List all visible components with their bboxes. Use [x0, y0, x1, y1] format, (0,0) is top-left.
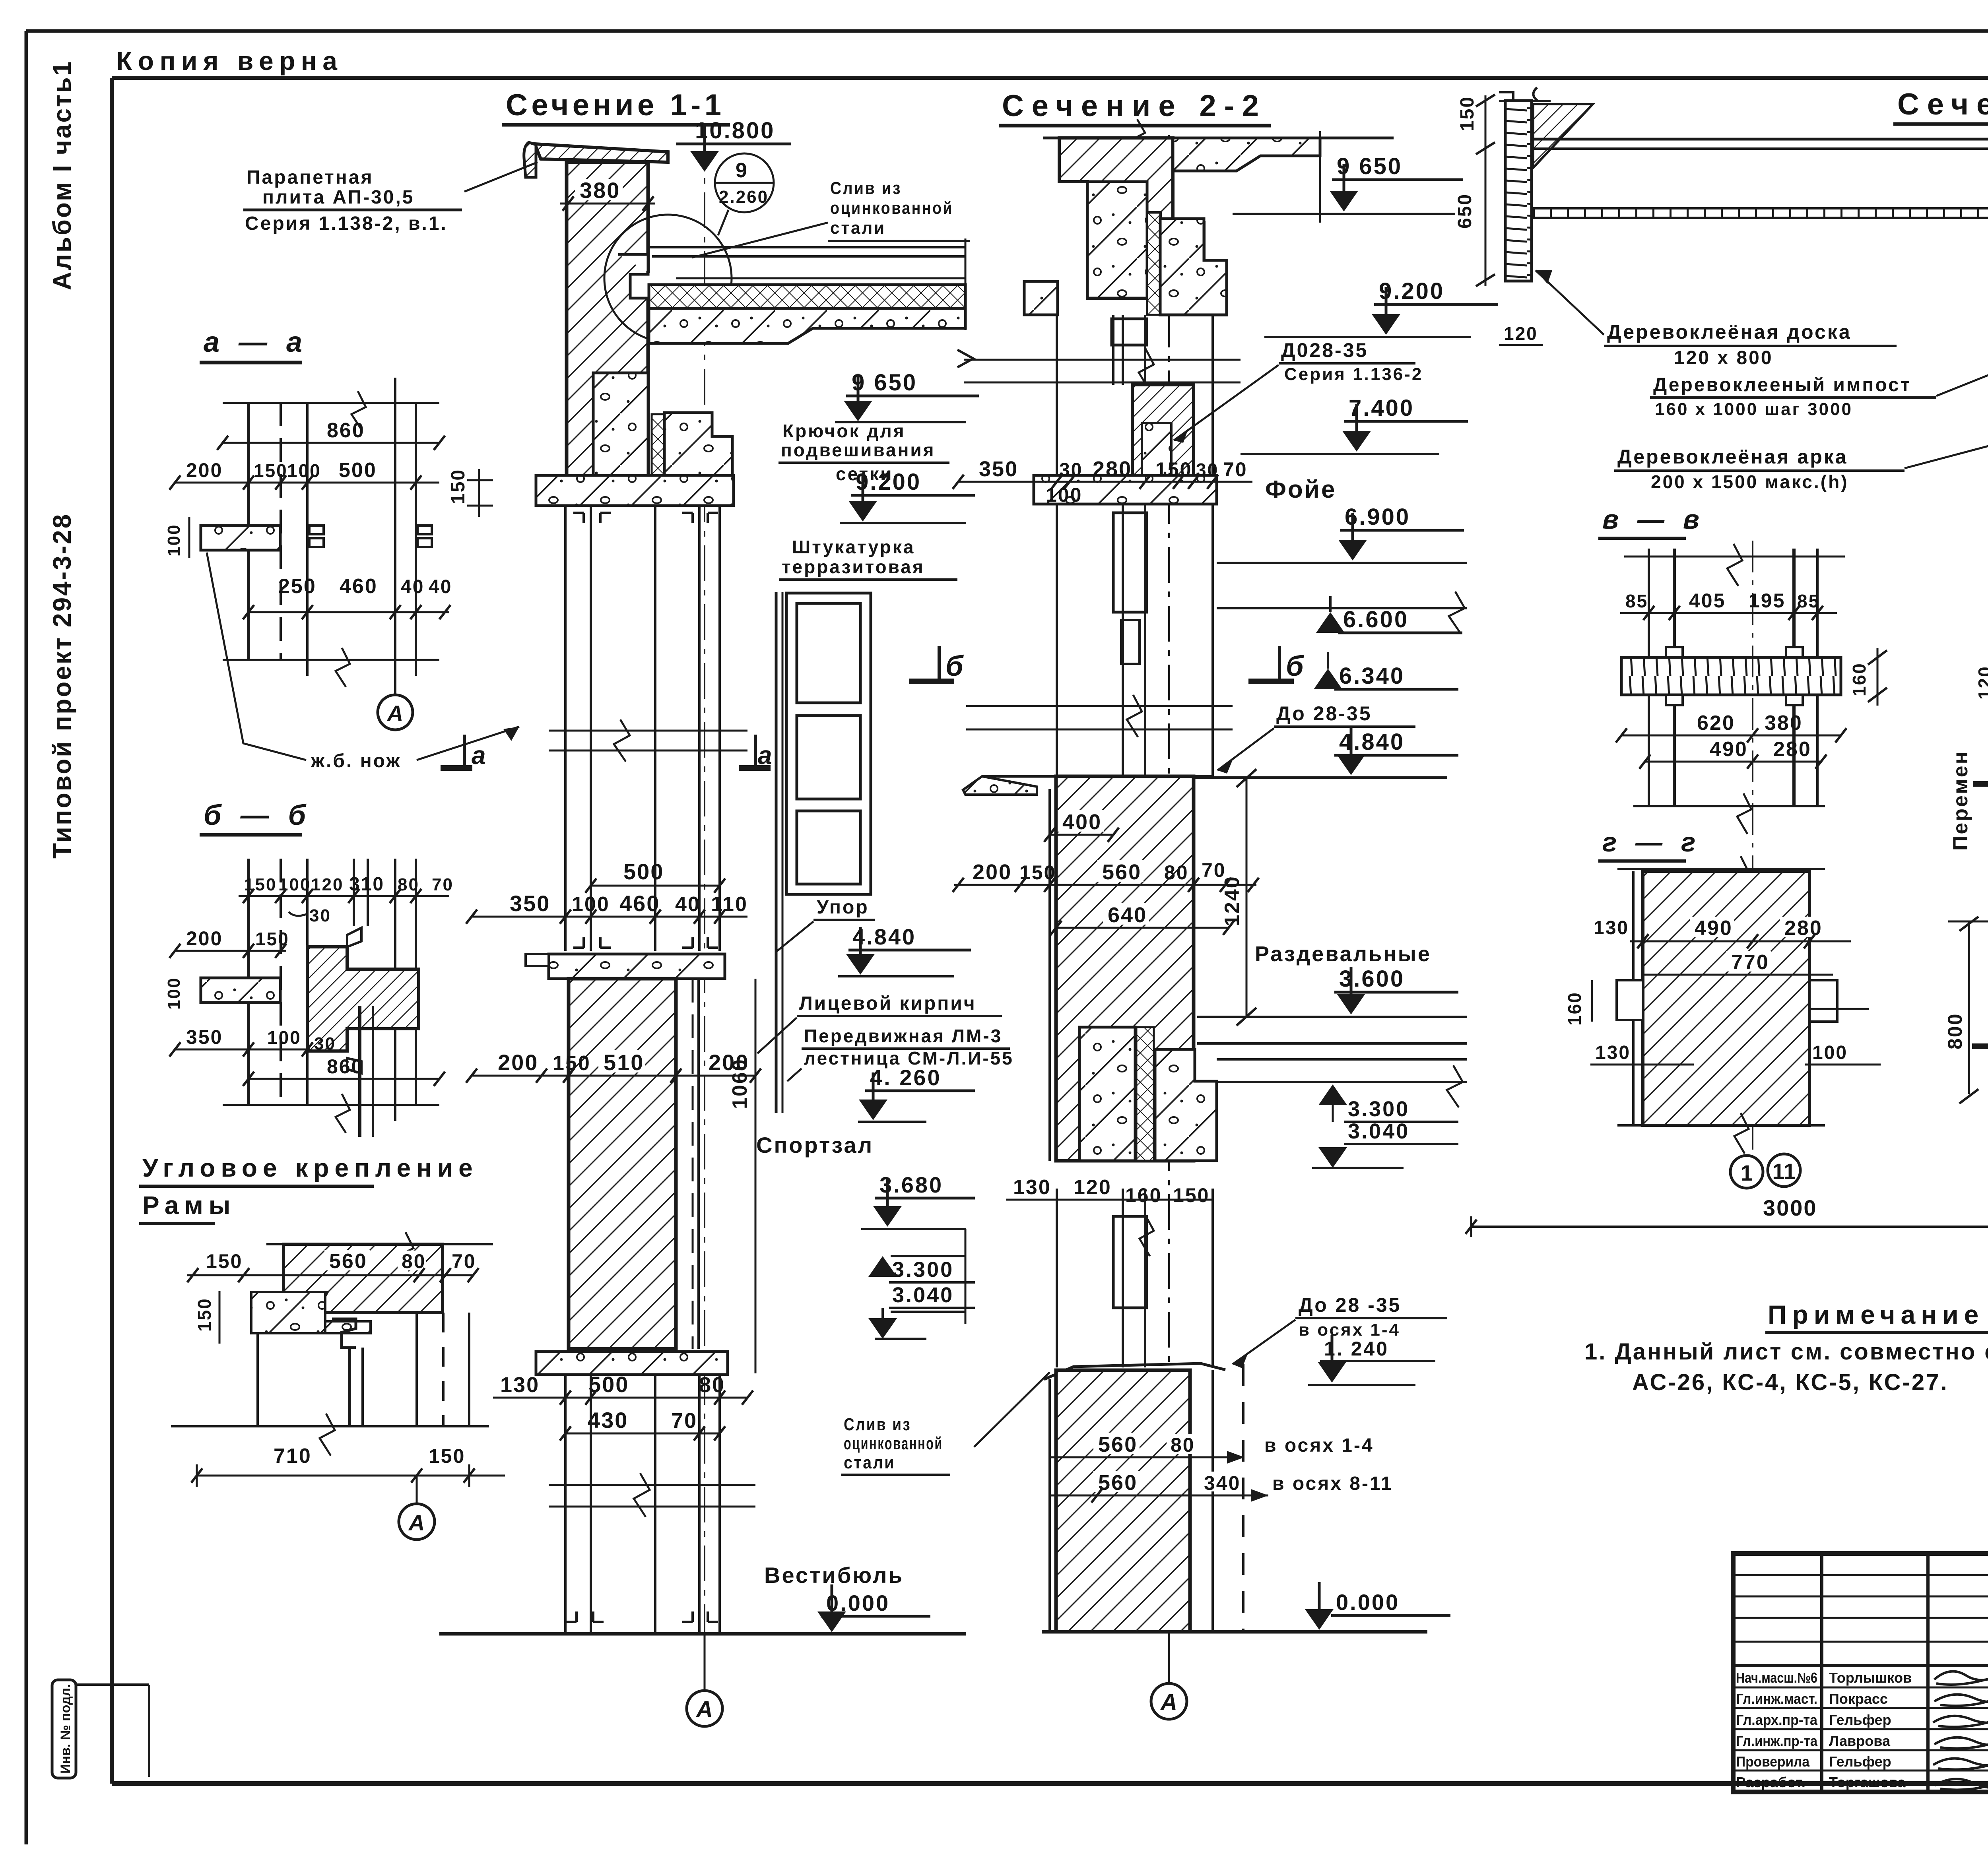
svg-text:70: 70 — [1223, 458, 1248, 481]
svg-text:До 28-35: До 28-35 — [1276, 702, 1372, 725]
svg-text:Типовой проект 294-3-28: Типовой проект 294-3-28 — [48, 513, 76, 859]
svg-text:б — б: б — б — [204, 799, 311, 831]
svg-text:100: 100 — [164, 977, 184, 1010]
sill band — [1034, 475, 1217, 504]
svg-text:85: 85 — [1797, 591, 1820, 611]
svg-text:11: 11 — [1772, 1159, 1796, 1184]
svg-text:80: 80 — [1171, 1434, 1195, 1456]
leader to Парапетная плита label — [464, 162, 538, 192]
left margin stamp box Инв № подл — [52, 1680, 149, 1778]
b-b cut marks — [909, 646, 1294, 681]
svg-text:100: 100 — [572, 893, 610, 916]
roof slab right concrete — [1173, 138, 1320, 171]
bottom dim line with break — [223, 659, 439, 661]
top dim line with break — [223, 402, 439, 404]
svg-text:40: 40 — [675, 893, 701, 916]
svg-text:150: 150 — [429, 1445, 465, 1467]
svg-text:1: 1 — [1740, 1160, 1753, 1185]
svg-text:130: 130 — [500, 1373, 540, 1397]
svg-text:А: А — [408, 1510, 425, 1535]
right concrete block — [1160, 219, 1227, 315]
svg-text:3000: 3000 — [1763, 1195, 1817, 1220]
bottom brackets — [566, 1611, 604, 1622]
b cut marks — [1973, 757, 1988, 784]
svg-text:3.680: 3.680 — [879, 1172, 943, 1197]
roof line — [1043, 137, 1394, 140]
break 1 — [964, 348, 1241, 391]
mid wall — [569, 979, 676, 1349]
svg-text:Копия верна: Копия верна — [116, 46, 339, 76]
window head profile in wall notch — [618, 254, 712, 309]
svg-text:150: 150 — [448, 469, 469, 504]
svg-text:Серия 1.136-2: Серия 1.136-2 — [1284, 365, 1423, 384]
column lines — [1820, 1553, 1823, 1792]
svg-text:200 х 1500 макс.(h): 200 х 1500 макс.(h) — [1651, 471, 1849, 492]
svg-text:400: 400 — [1062, 810, 1102, 834]
svg-text:160: 160 — [1849, 662, 1870, 696]
insulation column — [652, 414, 664, 475]
svg-text:Торлышков: Торлышков — [1829, 1670, 1912, 1686]
svg-text:85: 85 — [1625, 591, 1648, 611]
concrete inset — [1087, 182, 1147, 298]
svg-text:9: 9 — [736, 159, 748, 182]
svg-text:9 650: 9 650 — [1337, 153, 1402, 179]
ground line — [1042, 1630, 1427, 1634]
verticals — [248, 859, 416, 1121]
svg-text:Рамы: Рамы — [142, 1191, 236, 1220]
clips — [309, 526, 432, 547]
svg-text:6.340: 6.340 — [1339, 663, 1405, 689]
big wall — [1056, 776, 1194, 1161]
svg-text:350: 350 — [979, 457, 1018, 481]
dim 400 — [1058, 810, 1104, 832]
svg-text:Угловое крепление: Угловое крепление — [142, 1154, 478, 1182]
svg-text:1. 240: 1. 240 — [1324, 1338, 1389, 1360]
svg-text:405: 405 — [1689, 590, 1726, 612]
svg-text:30: 30 — [314, 1034, 336, 1053]
ceiling plank lines with ticks — [1533, 207, 1988, 209]
svg-text:100: 100 — [1046, 484, 1082, 506]
svg-text:70: 70 — [432, 875, 454, 894]
svg-text:Спортзал: Спортзал — [756, 1132, 874, 1158]
detail circle on wall — [604, 215, 732, 342]
slab right break edge — [965, 239, 967, 330]
svg-text:150: 150 — [244, 875, 277, 894]
svg-text:250: 250 — [278, 575, 316, 598]
svg-text:АС-26, КС-4, КС-5, КС-27.: АС-26, КС-4, КС-5, КС-27. — [1632, 1369, 1949, 1395]
svg-text:160 х 1000 шаг 3000: 160 х 1000 шаг 3000 — [1655, 399, 1853, 419]
svg-text:Альбом I часть1: Альбом I часть1 — [48, 60, 76, 290]
hatched bar (ж.б. нож) — [201, 526, 280, 550]
svg-text:7.400: 7.400 — [1349, 395, 1414, 421]
base wall cap — [1044, 1363, 1225, 1379]
svg-text:560: 560 — [1098, 1471, 1138, 1495]
left glulam post — [1505, 101, 1532, 281]
svg-text:200: 200 — [973, 860, 1012, 884]
svg-text:А: А — [1160, 1689, 1177, 1715]
svg-text:120 х 800: 120 х 800 — [1674, 347, 1773, 368]
svg-text:710: 710 — [274, 1445, 312, 1468]
verticals — [248, 378, 416, 696]
svg-text:Вестибюль: Вестибюль — [764, 1563, 904, 1588]
svg-text:г — г: г — г — [1602, 827, 1701, 857]
crosshatch strip — [1147, 213, 1160, 315]
svg-text:150: 150 — [206, 1250, 243, 1272]
small frame profile — [332, 1319, 356, 1348]
svg-text:а: а — [472, 741, 487, 770]
dims 490 280 / 770 — [1690, 917, 1734, 937]
svg-text:500: 500 — [623, 859, 664, 884]
svg-text:в — в: в — в — [1602, 504, 1705, 535]
window top brackets — [573, 513, 611, 523]
svg-text:Передвижная ЛМ-3: Передвижная ЛМ-3 — [804, 1026, 1002, 1046]
svg-text:б: б — [945, 650, 965, 682]
svg-text:460: 460 — [340, 575, 378, 598]
dim 380 — [575, 179, 623, 200]
svg-text:150: 150 — [1173, 1184, 1209, 1206]
svg-text:560: 560 — [1102, 860, 1142, 884]
svg-text:4. 260: 4. 260 — [870, 1065, 942, 1090]
svg-text:800: 800 — [1944, 1013, 1966, 1049]
window band 1 — [1057, 315, 1213, 475]
svg-text:2.260: 2.260 — [719, 187, 769, 207]
axis line (dash-dot) — [1168, 135, 1170, 1681]
right slab lines — [891, 1255, 965, 1257]
svg-text:в осях 1-4: в осях 1-4 — [1264, 1435, 1374, 1456]
svg-text:100: 100 — [164, 524, 184, 557]
svg-text:160: 160 — [1125, 1184, 1162, 1206]
axis dash-dot — [1752, 541, 1753, 1153]
svg-text:200: 200 — [186, 927, 223, 950]
svg-text:120: 120 — [311, 875, 344, 894]
svg-text:280: 280 — [1773, 738, 1811, 761]
svg-text:70: 70 — [671, 1409, 697, 1433]
svg-text:430: 430 — [588, 1408, 628, 1433]
svg-text:стали: стали — [830, 218, 886, 238]
svg-text:350: 350 — [510, 891, 550, 916]
svg-text:Фойе: Фойе — [1265, 476, 1336, 503]
axis line A (dash-dot) — [704, 134, 705, 1689]
svg-text:1240: 1240 — [1221, 875, 1244, 926]
svg-text:860: 860 — [327, 419, 365, 442]
svg-text:4.840: 4.840 — [852, 924, 916, 949]
svg-text:640: 640 — [1108, 903, 1147, 927]
800 dim left — [1948, 921, 1988, 923]
main parapet wall — [567, 162, 648, 476]
svg-text:Нач.масш.№6: Нач.масш.№6 — [1736, 1670, 1817, 1686]
roof slab concrete — [649, 308, 965, 343]
svg-text:3.600: 3.600 — [1339, 966, 1405, 992]
axis circle A — [704, 1634, 706, 1691]
svg-text:Слив из: Слив из — [830, 178, 902, 198]
bottom line — [171, 1425, 489, 1427]
svg-text:120: 120 — [1974, 665, 1988, 700]
svg-text:120: 120 — [1074, 1176, 1112, 1199]
svg-text:200: 200 — [186, 459, 223, 481]
svg-text:100: 100 — [287, 460, 321, 481]
svg-text:Штукатурка: Штукатурка — [792, 537, 915, 557]
break in window band 1 — [549, 719, 747, 762]
svg-text:280: 280 — [1784, 917, 1823, 940]
svg-text:500: 500 — [339, 459, 377, 482]
svg-text:80: 80 — [699, 1373, 725, 1397]
svg-text:Гл.инж.пр-та: Гл.инж.пр-та — [1736, 1733, 1818, 1749]
beam — [1621, 657, 1841, 695]
svg-text:Лицевой кирпич: Лицевой кирпич — [799, 993, 977, 1014]
detail bubble 9 / 2.260 — [715, 153, 774, 212]
svg-text:А: А — [386, 701, 403, 726]
left small block — [1024, 281, 1058, 315]
concrete insets at bottom of big wall — [1079, 1027, 1135, 1161]
svg-text:в осях 1-4: в осях 1-4 — [1299, 1320, 1400, 1340]
svg-text:6.600: 6.600 — [1343, 607, 1409, 632]
svg-text:10.800: 10.800 — [695, 118, 775, 144]
svg-text:До 28 -35: До 28 -35 — [1299, 1294, 1401, 1316]
svg-text:650: 650 — [1454, 193, 1475, 229]
left rows text — [1736, 1670, 1912, 1790]
ladder line — [775, 592, 778, 1113]
svg-text:1060: 1060 — [728, 1058, 751, 1109]
svg-text:770: 770 — [1731, 951, 1769, 974]
hatched block — [1643, 871, 1809, 1125]
svg-text:Гл.инж.маст.: Гл.инж.маст. — [1736, 1691, 1817, 1707]
svg-text:плита АП-30,5: плита АП-30,5 — [262, 187, 414, 208]
svg-text:Примечание: Примечание — [1768, 1300, 1984, 1329]
svg-text:380: 380 — [580, 178, 620, 203]
svg-text:а: а — [758, 741, 774, 770]
hatched bar left — [201, 978, 280, 1003]
floor line — [439, 1632, 966, 1636]
roof slab insulation crosshatch — [649, 285, 965, 308]
svg-text:80: 80 — [1164, 861, 1189, 884]
top line — [266, 1243, 493, 1245]
left rows (empty upper) — [1733, 1574, 1988, 1576]
hatch wedge right of post — [1533, 104, 1593, 168]
bottom line with break — [223, 1104, 439, 1106]
svg-text:200: 200 — [498, 1050, 538, 1075]
svg-text:Инв. № подл.: Инв. № подл. — [58, 1684, 73, 1774]
big wall top cap (слив) — [963, 776, 1037, 795]
svg-text:4.840: 4.840 — [1339, 729, 1405, 755]
svg-text:0.000: 0.000 — [1336, 1590, 1400, 1615]
svg-text:А: А — [695, 1697, 713, 1722]
mid wall fojé level — [1132, 385, 1194, 475]
svg-text:560: 560 — [1098, 1433, 1138, 1456]
axis circles 1 11 — [1730, 1156, 1763, 1188]
svg-text:3.040: 3.040 — [1348, 1119, 1409, 1143]
svg-text:490: 490 — [1695, 917, 1733, 940]
svg-text:100: 100 — [267, 1027, 301, 1048]
parapet inner concrete block — [593, 373, 648, 475]
break 2 — [966, 695, 1233, 737]
svg-text:30: 30 — [1059, 460, 1083, 481]
side lugs — [1617, 980, 1643, 1020]
svg-text:30: 30 — [309, 906, 331, 925]
wall foot sill — [536, 1352, 728, 1375]
svg-text:Покрасс: Покрасс — [1829, 1691, 1888, 1707]
svg-text:оцинкованной: оцинкованной — [844, 1434, 943, 1453]
svg-text:150: 150 — [1457, 96, 1478, 131]
svg-text:9.200: 9.200 — [1379, 278, 1444, 304]
svg-text:3.040: 3.040 — [892, 1283, 954, 1307]
window elevation at right — [786, 593, 871, 894]
window member below — [358, 1006, 361, 1137]
svg-text:130: 130 — [1013, 1176, 1051, 1199]
svg-text:510: 510 — [604, 1050, 644, 1075]
svg-text:110: 110 — [711, 893, 748, 916]
svg-text:150: 150 — [1155, 458, 1192, 481]
svg-text:3.300: 3.300 — [892, 1258, 954, 1282]
svg-text:80: 80 — [398, 875, 419, 894]
svg-text:Торгашова: Торгашова — [1829, 1774, 1906, 1790]
svg-text:Деревоклееный импост: Деревоклееный импост — [1653, 374, 1911, 396]
verticals below — [258, 1313, 469, 1426]
break in window band 2 — [549, 1473, 755, 1517]
svg-text:Сечение 1-1: Сечение 1-1 — [506, 88, 727, 122]
svg-text:подвешивания: подвешивания — [781, 440, 936, 460]
svg-text:3.300: 3.300 — [1348, 1097, 1409, 1121]
name rows — [1733, 1687, 1988, 1689]
svg-text:40: 40 — [401, 576, 424, 597]
svg-text:40: 40 — [429, 576, 452, 597]
svg-text:6.900: 6.900 — [1345, 504, 1410, 530]
axis line + circle A — [416, 1476, 418, 1504]
svg-text:9.200: 9.200 — [856, 469, 921, 495]
svg-text:Гл.арх.пр-та: Гл.арх.пр-та — [1736, 1712, 1818, 1728]
svg-text:Лаврова: Лаврова — [1829, 1733, 1891, 1749]
dims в осях — [1093, 1433, 1140, 1454]
svg-text:130: 130 — [1594, 917, 1629, 939]
svg-text:1. Данный лист см. совмест: 1. Данный лист см. совместно с листами — [1584, 1339, 1988, 1365]
a-a cut marks — [441, 735, 771, 768]
svg-text:860: 860 — [327, 1055, 363, 1078]
window band 2 verticals — [565, 1375, 720, 1634]
svg-text:150: 150 — [254, 460, 288, 481]
svg-text:Сечение 2-2: Сечение 2-2 — [1002, 89, 1264, 123]
parapet cap plate — [535, 144, 668, 162]
top line with break — [1617, 868, 1825, 870]
roof slab top lines — [648, 246, 965, 248]
svg-text:Крючок для: Крючок для — [782, 421, 906, 441]
bottom brackets of window band 1 — [573, 937, 611, 948]
svg-text:Д028-35: Д028-35 — [1281, 339, 1368, 361]
parapet wall hatch — [1059, 138, 1227, 315]
svg-text:150: 150 — [194, 1297, 215, 1332]
bottom line with break — [1617, 1124, 1825, 1127]
svg-text:100: 100 — [1812, 1042, 1848, 1063]
axis circle A — [378, 695, 413, 730]
axis circle A — [1168, 1632, 1170, 1684]
window band 1 verticals — [565, 506, 720, 951]
sill concrete band 2 — [549, 954, 725, 979]
right floor slab — [1197, 1017, 1467, 1107]
svg-text:оцинкованной: оцинкованной — [830, 198, 953, 218]
hook symbol — [676, 421, 699, 459]
frame clips above/below — [347, 928, 361, 1073]
roof top lines — [1533, 138, 1988, 141]
sill concrete band 1 — [536, 475, 734, 506]
concrete sill bar — [251, 1292, 371, 1333]
svg-text:120: 120 — [1504, 323, 1538, 344]
svg-text:490: 490 — [1710, 738, 1748, 761]
svg-text:стали: стали — [844, 1453, 895, 1472]
svg-text:310: 310 — [349, 874, 384, 895]
svg-text:Слив из: Слив из — [844, 1415, 911, 1434]
svg-text:терразитовая: терразитовая — [782, 557, 925, 577]
right floor slab lines under 6.900 — [1217, 562, 1467, 564]
svg-text:Гельфер: Гельфер — [1829, 1712, 1891, 1728]
g cut marks — [1972, 1020, 1988, 1046]
bolts above beam — [1666, 647, 1803, 657]
svg-text:ж.б. нож: ж.б. нож — [311, 750, 401, 772]
svg-text:460: 460 — [619, 891, 660, 916]
svg-text:195: 195 — [1749, 590, 1785, 612]
signatures squiggles — [1933, 1672, 1988, 1790]
svg-text:Парапетная: Парапетная — [247, 167, 373, 188]
svg-text:160: 160 — [1564, 991, 1585, 1026]
verticals with break — [1624, 544, 1845, 806]
bottom line — [1633, 805, 1825, 807]
window band 3 — [1057, 1189, 1213, 1367]
svg-text:280: 280 — [1093, 457, 1132, 481]
svg-text:Гельфер: Гельфер — [1829, 1753, 1891, 1770]
svg-text:Деревоклеёная арка: Деревоклеёная арка — [1617, 446, 1848, 468]
big L-shaped hatched frame member — [307, 947, 419, 1051]
base wall — [1056, 1370, 1190, 1632]
right concrete block with step — [664, 413, 732, 475]
svg-text:130: 130 — [1595, 1042, 1631, 1063]
svg-text:70: 70 — [452, 1250, 476, 1272]
svg-text:б: б — [1286, 650, 1305, 682]
svg-text:Упор: Упор — [817, 897, 869, 918]
svg-text:Деревоклеёная доска: Деревоклеёная доска — [1607, 321, 1852, 343]
svg-text:560: 560 — [329, 1250, 367, 1273]
svg-text:а — а: а — а — [204, 326, 308, 358]
svg-text:340: 340 — [1204, 1472, 1241, 1494]
svg-text:в осях 8-11: в осях 8-11 — [1272, 1473, 1393, 1494]
hatched lintel — [283, 1244, 443, 1313]
svg-text:Серия 1.138-2, в.1.: Серия 1.138-2, в.1. — [245, 213, 448, 234]
svg-text:Раздевальные: Раздевальные — [1255, 942, 1431, 966]
window band 2 — [1057, 504, 1213, 776]
svg-text:350: 350 — [186, 1026, 223, 1048]
svg-text:Проверила: Проверила — [1736, 1753, 1810, 1770]
svg-text:9 650: 9 650 — [852, 370, 917, 396]
svg-text:Разработ.: Разработ. — [1736, 1774, 1806, 1790]
dim 640 — [1103, 903, 1149, 925]
svg-text:380: 380 — [1765, 712, 1803, 735]
svg-text:620: 620 — [1697, 712, 1735, 735]
svg-text:Перемен: Перемен — [1949, 750, 1972, 851]
